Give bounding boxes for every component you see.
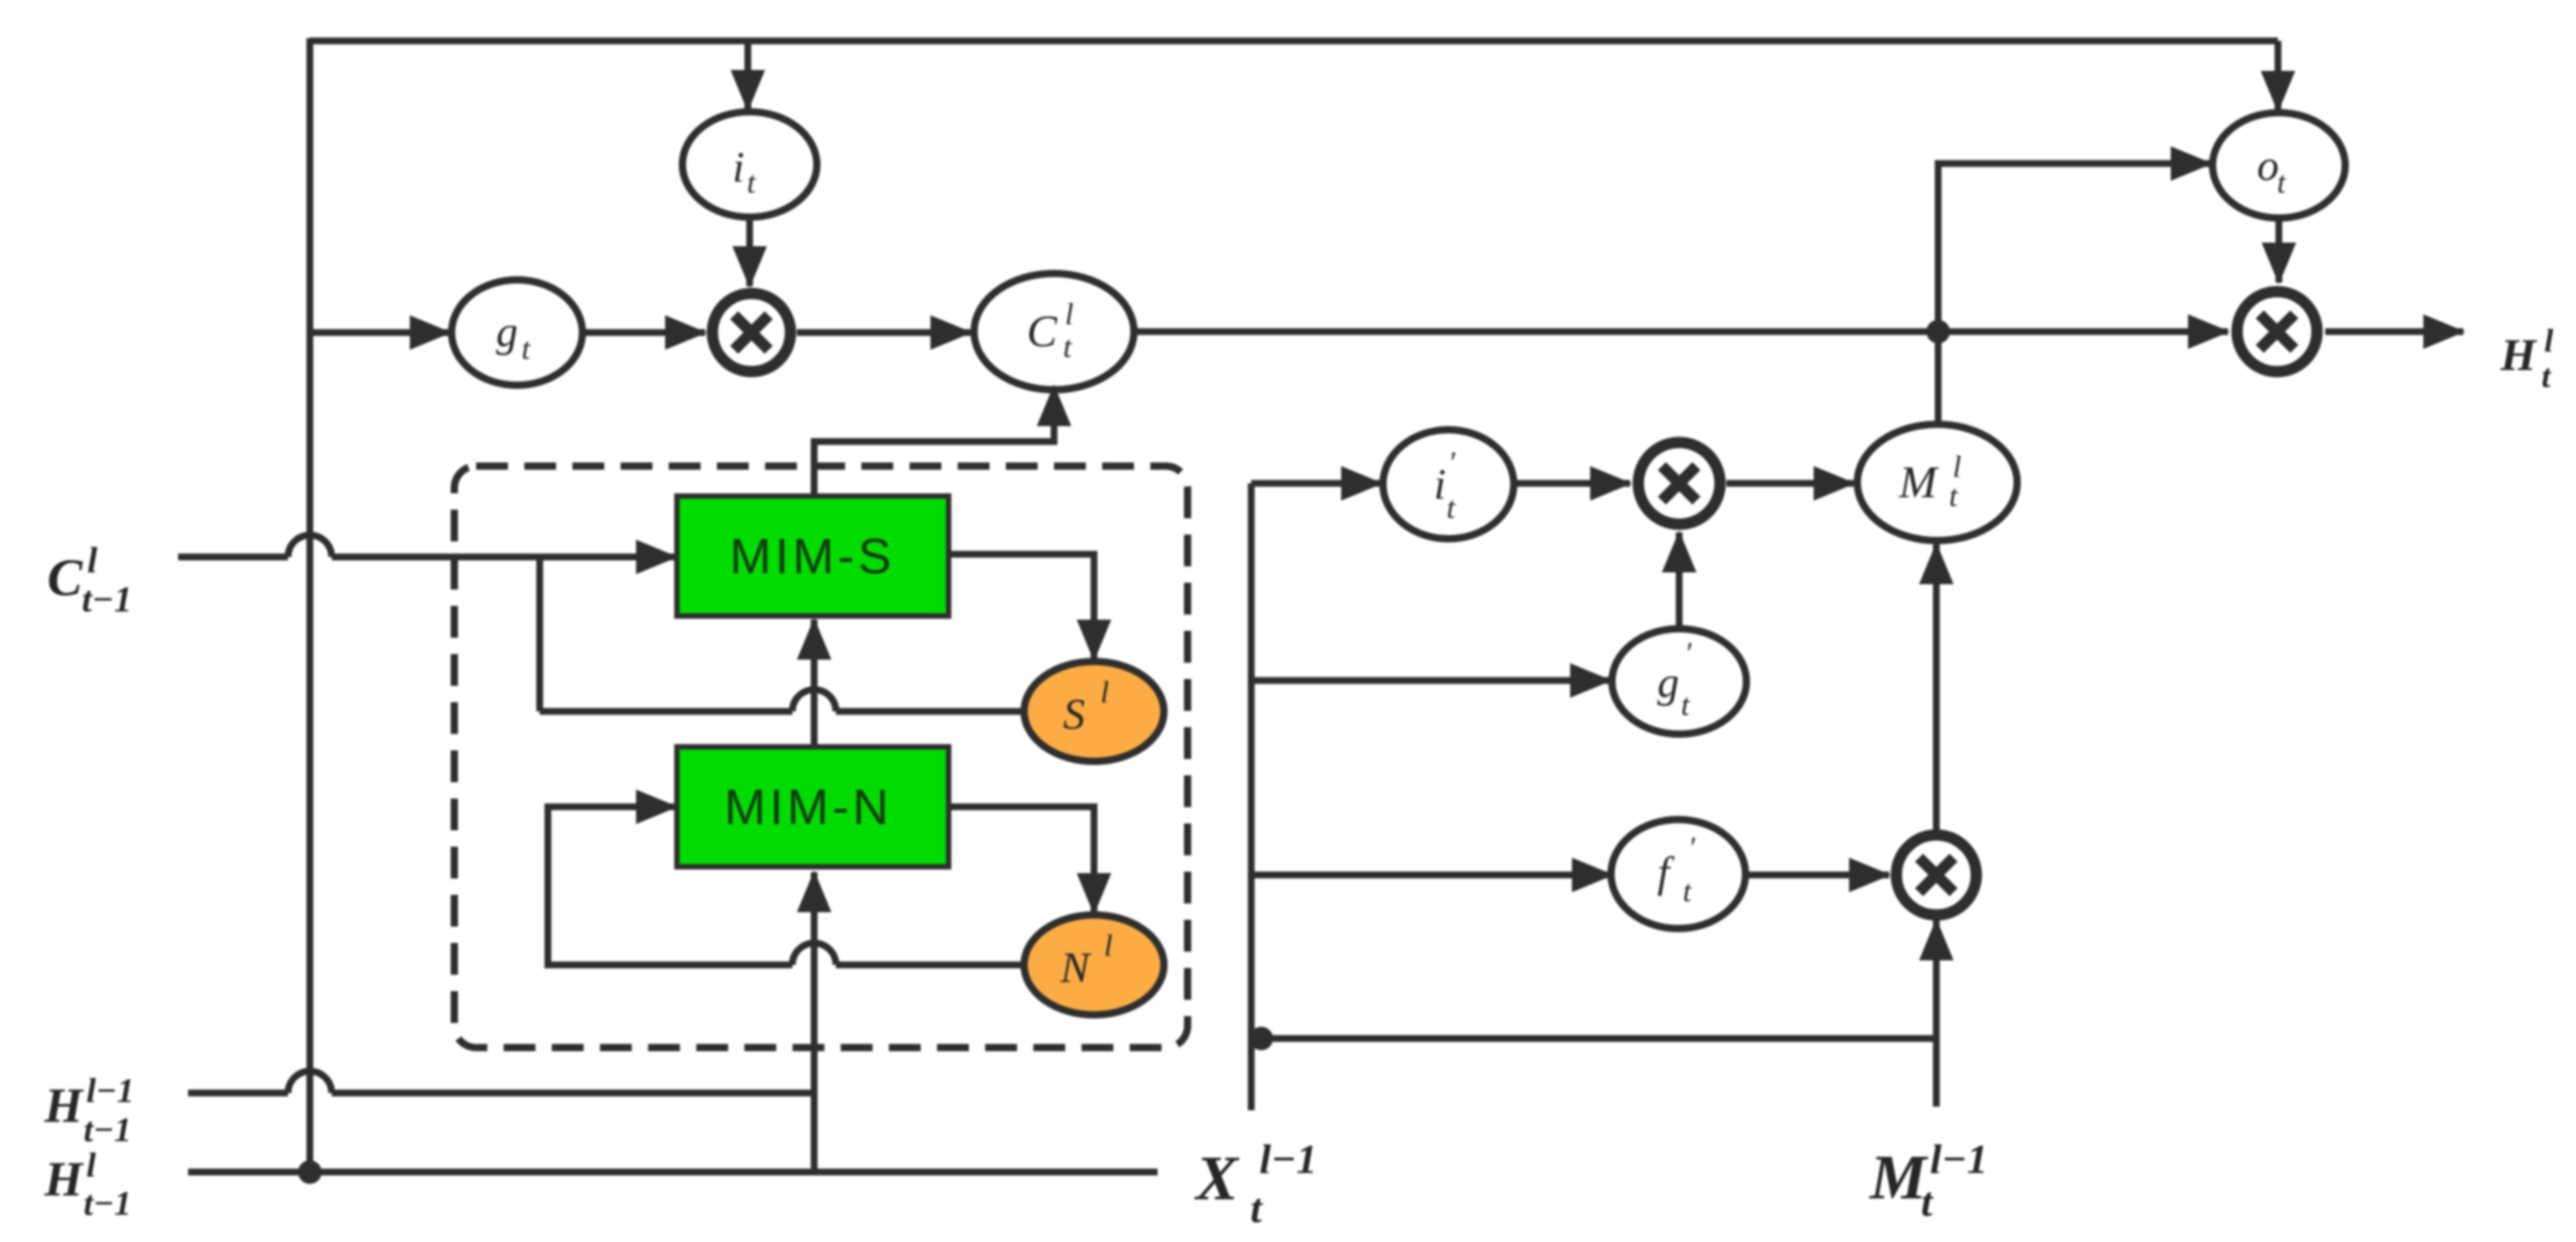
wire X2 to M_t^l (1726, 480, 1854, 487)
wire f'_t to X3 (1747, 871, 1889, 879)
wire X feed branch to g'_t (1251, 677, 1610, 684)
junction dot left bus on bottom line (298, 1160, 322, 1184)
svg-text:l: l (1100, 676, 1109, 710)
junction dot on X feed bottom branch (1249, 1027, 1273, 1050)
svg-text:′: ′ (1688, 831, 1696, 865)
wire S^l feedback line with hop over MIM column (540, 708, 792, 715)
svg-text:i: i (732, 144, 744, 192)
wire g'_t up to X2 (1676, 532, 1683, 629)
svg-text:H: H (2500, 329, 2538, 380)
wire X feed bottom branch to riser (1251, 1035, 1936, 1042)
svg-text:l−1: l−1 (86, 1072, 134, 1110)
svg-text:H: H (44, 1078, 85, 1133)
wire branch down from C line to S feedback (536, 557, 543, 711)
svg-text:l: l (2544, 323, 2553, 359)
node S^l (1024, 661, 1164, 761)
svg-text:t: t (2277, 166, 2287, 200)
svg-text:C: C (47, 548, 84, 607)
svg-text:l: l (87, 540, 98, 581)
svg-text:t: t (1683, 875, 1693, 909)
node f'_t (1611, 820, 1746, 929)
wire H_{t-1}^l bottom line (188, 1168, 1158, 1176)
wire bottom feed up into MIM-N (811, 872, 818, 1172)
svg-text:l: l (1104, 929, 1112, 963)
multiplier X1 (712, 293, 791, 372)
node i_t (682, 112, 817, 217)
wire X feed vertical bus (1248, 483, 1255, 1110)
node g_t (452, 280, 582, 385)
junction dot on C line at M column (1926, 320, 1950, 343)
wire M column down to M_t^l (1934, 332, 1942, 427)
multiplier X3 (1896, 835, 1976, 915)
node o_t (2213, 113, 2345, 218)
svg-text:t: t (1949, 480, 1959, 513)
wire MIM-N top to MIM-S bottom (811, 620, 818, 747)
svg-text:t: t (1063, 331, 1073, 364)
node M_t^l (1857, 424, 2017, 541)
wire MIM-S top to C_t^l (814, 386, 1054, 496)
svg-text:S: S (1063, 691, 1085, 739)
block MIM-N (677, 747, 949, 867)
svg-text:t−1: t−1 (84, 1185, 132, 1223)
wire X3 up to M_t^l bottom (1933, 544, 1940, 830)
wire X feed branch to i'_t (1251, 480, 1381, 487)
wire i'_t to X2 (1515, 480, 1630, 487)
wire into g_t (310, 329, 450, 336)
svg-text:X: X (1194, 1144, 1240, 1214)
wire left vertical bus (306, 38, 313, 1172)
svg-text:H: H (44, 1152, 85, 1207)
block MIM-S (677, 496, 949, 616)
wire M column up and into o_t (1938, 164, 2211, 332)
svg-text:′: ′ (1448, 446, 1456, 480)
node N^l (1024, 915, 1164, 1015)
wire C_{t-1}^l into MIM-S with hop over left bus (178, 553, 288, 561)
wire H_{t-1}^{l-1} line with hop over left bus (188, 1089, 288, 1097)
svg-text:t−1: t−1 (84, 1111, 132, 1149)
svg-text:l−1: l−1 (1930, 1136, 1988, 1182)
svg-text:l−1: l−1 (1259, 1136, 1318, 1182)
svg-text:C: C (1027, 305, 1058, 356)
svg-text:′: ′ (1685, 637, 1692, 671)
node i'_t (1383, 430, 1514, 539)
svg-text:N: N (1059, 944, 1092, 992)
svg-text:l: l (1065, 298, 1073, 332)
svg-text:t−1: t−1 (82, 579, 132, 620)
multiplier X4 (2237, 292, 2317, 372)
svg-text:t: t (1921, 1178, 1934, 1225)
wire i_t to multiplier X1 (746, 218, 753, 286)
wire top bus from left vertical to o_t column (310, 37, 2278, 45)
svg-text:l: l (86, 1147, 96, 1185)
svg-text:g: g (496, 308, 518, 356)
wire o_t down to X4 (2275, 219, 2283, 283)
svg-text:MIM-S: MIM-S (730, 528, 895, 584)
wire C_t^l to final multiplier X4 (1134, 328, 2228, 335)
svg-text:t: t (1250, 1185, 1263, 1231)
dashed MIM box (454, 466, 1188, 1048)
svg-text:o: o (2257, 142, 2279, 190)
wire g_t to multiplier X1 (583, 329, 705, 336)
wire X4 to H_t^l output (2325, 328, 2463, 335)
node C_t^l (974, 273, 1134, 390)
wire X1 to C_t^l (797, 329, 970, 336)
svg-text:i: i (1434, 461, 1446, 509)
wire branch down to i_t (744, 41, 751, 110)
svg-text:g: g (1657, 659, 1679, 707)
node g'_t (1612, 629, 1746, 734)
wire top bus drop into o_t (2274, 41, 2282, 111)
multiplier X2 (1638, 442, 1720, 524)
svg-text:M: M (1898, 456, 1939, 507)
svg-text:t: t (2541, 358, 2551, 394)
wire M_t^{l-1} riser into X3 (1933, 920, 1940, 1107)
wire MIM-N right to N^l (949, 807, 1094, 913)
svg-text:MIM-N: MIM-N (724, 779, 892, 835)
svg-text:t: t (522, 333, 532, 366)
wire MIM-S right to S^l (949, 554, 1094, 660)
wire N^l feedback into MIM-N with hop over MIM column (836, 961, 1024, 969)
svg-text:t: t (1447, 492, 1457, 525)
wire X feed branch to f'_t (1251, 871, 1612, 879)
svg-text:t: t (747, 166, 757, 200)
svg-text:t: t (1681, 689, 1691, 722)
